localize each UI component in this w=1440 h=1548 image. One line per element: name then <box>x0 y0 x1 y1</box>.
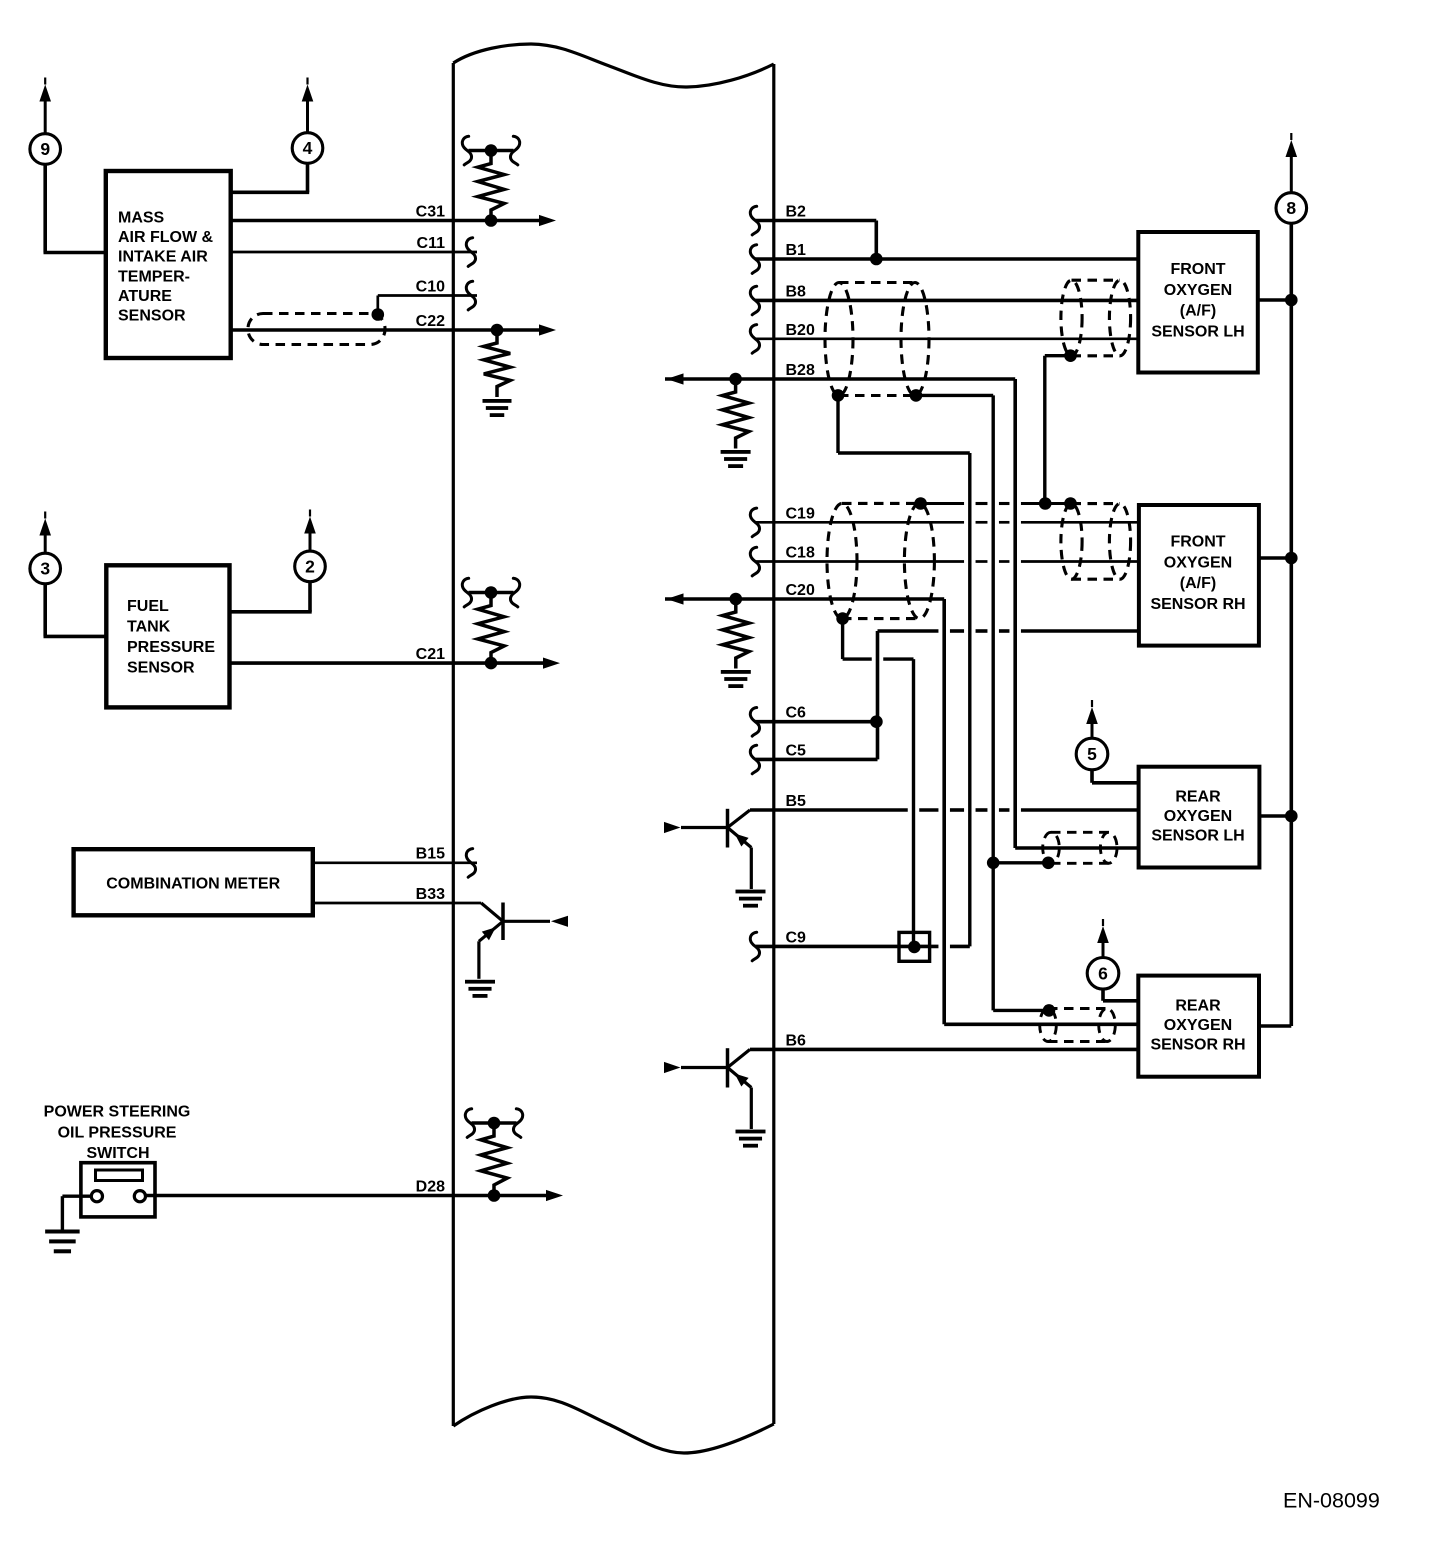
fuel tank pressure sensor label <box>127 598 215 677</box>
shielded twisted pair B8/B20 (dashed tube) <box>825 283 929 396</box>
wire C10 (shield ground) <box>378 296 477 314</box>
wire C11 (sensor ground) <box>231 251 477 254</box>
shield tube at front oxygen sensor LH <box>1061 280 1131 356</box>
connector break squiggle C11 <box>466 238 475 267</box>
wire C20 to rear oxygen sensor RH <box>665 593 1138 1025</box>
circled 3 terminal <box>30 512 61 584</box>
shielded cable around C22 wire (dashed) <box>248 314 385 345</box>
wire C21 (fuel tank pressure signal) <box>230 657 561 670</box>
pull-down resistor at C22 <box>484 330 510 397</box>
fuel tank pressure sensor box <box>106 565 229 707</box>
svg-text:C31: C31 <box>416 204 445 221</box>
wire C19 to front oxygen sensor RH <box>755 521 1139 524</box>
svg-text:C19: C19 <box>786 506 815 523</box>
svg-text:B5: B5 <box>786 793 807 810</box>
C18 pin label <box>786 545 815 562</box>
svg-text:C6: C6 <box>786 705 807 722</box>
wire D28 (power steering switch signal) <box>146 1189 564 1202</box>
svg-text:FRONT: FRONT <box>1170 534 1225 551</box>
shield tube at rear oxygen sensor RH <box>1040 1009 1116 1042</box>
transistor Q3 (B6 heater driver) <box>664 1048 751 1129</box>
joint connector on C9 shield line <box>899 932 930 961</box>
svg-text:OIL PRESSURE: OIL PRESSURE <box>58 1124 177 1141</box>
svg-text:B33: B33 <box>416 886 445 903</box>
C21 pin label <box>416 646 445 663</box>
svg-text:B2: B2 <box>786 204 807 221</box>
wire B33 <box>313 902 481 905</box>
svg-text:(A/F): (A/F) <box>1180 303 1216 320</box>
svg-text:B1: B1 <box>786 242 807 259</box>
svg-text:SENSOR LH: SENSOR LH <box>1151 323 1244 340</box>
circled 5 terminal <box>1076 700 1108 770</box>
connector break squiggle B1 <box>750 245 759 274</box>
svg-text:EN-08099: EN-08099 <box>1283 1489 1380 1513</box>
ECM band torn top edge (wave) <box>453 44 774 87</box>
wire MAF sensor to circled-4 <box>231 163 310 192</box>
diagram id text <box>1283 1489 1380 1513</box>
wire C9 (shield ground pin) <box>755 945 970 949</box>
front oxygen sensor RH label <box>1150 534 1245 613</box>
wire C31 (MAF signal) <box>231 214 556 227</box>
pull-up resistor at C21 <box>478 593 504 664</box>
B20 pin label <box>786 322 815 339</box>
connector break squiggle C6 <box>750 708 759 737</box>
C11 pin label <box>417 235 446 252</box>
front oxygen (A/F) sensor RH box <box>1139 505 1259 646</box>
wire B20 to front oxygen sensor LH <box>755 337 1138 340</box>
B1 pin label <box>786 242 807 259</box>
shield drain link to rear RH cable <box>993 1004 1055 1017</box>
ground below B28 resistor <box>721 450 751 468</box>
svg-text:POWER STEERING: POWER STEERING <box>44 1104 191 1121</box>
transistor Q2 (B5 heater driver) <box>664 809 751 889</box>
svg-text:FUEL: FUEL <box>127 598 169 615</box>
svg-text:SENSOR: SENSOR <box>127 660 195 677</box>
C9 pin label <box>786 930 807 947</box>
circled 9 terminal <box>30 78 61 165</box>
connector break squiggle C5 <box>750 745 759 774</box>
svg-text:B15: B15 <box>416 846 445 863</box>
svg-text:SENSOR: SENSOR <box>118 308 186 325</box>
svg-text:B8: B8 <box>786 284 807 301</box>
svg-text:SENSOR RH: SENSOR RH <box>1150 1037 1245 1054</box>
ground at Q2 emitter <box>736 890 766 908</box>
shield drain of front LH connector tube <box>1045 349 1077 503</box>
power steering oil pressure switch label <box>44 1104 191 1162</box>
wire C18 to front oxygen sensor RH <box>755 560 1139 563</box>
svg-text:SENSOR LH: SENSOR LH <box>1151 828 1244 845</box>
C31 pin label <box>416 204 445 221</box>
B2 pin label <box>786 204 807 221</box>
wire fuel tank sensor to circled-2 <box>230 581 312 612</box>
wire circled-9 to MAF sensor <box>44 164 106 252</box>
common sensor power rail to circled-8 <box>1258 223 1298 1026</box>
svg-text:C11: C11 <box>417 235 446 252</box>
combination meter label <box>106 876 280 893</box>
circled 2 terminal <box>295 510 326 582</box>
D28 pin label <box>416 1179 445 1196</box>
shield tube at front oxygen sensor RH <box>1061 504 1131 580</box>
svg-text:C22: C22 <box>416 313 445 330</box>
svg-text:INTAKE AIR: INTAKE AIR <box>118 249 208 266</box>
pull-down resistor at B28 <box>722 379 748 449</box>
svg-text:TEMPER-: TEMPER- <box>118 268 190 285</box>
transistor Q1 (B33 driver) <box>479 903 568 979</box>
svg-text:SENSOR RH: SENSOR RH <box>1150 596 1245 613</box>
C5 pin label <box>786 743 807 760</box>
svg-text:OXYGEN: OXYGEN <box>1164 282 1232 299</box>
connector break squiggle B8 <box>750 286 759 315</box>
wire B28 to rear oxygen sensor LH <box>665 373 1139 848</box>
connector break squiggle B2 <box>750 206 759 235</box>
svg-text:(A/F): (A/F) <box>1180 575 1216 592</box>
shield drain of front LH cable (left end) <box>832 389 970 946</box>
svg-text:3: 3 <box>40 559 50 579</box>
B15 pin label <box>416 846 445 863</box>
C6 pin label <box>786 705 807 722</box>
svg-text:ATURE: ATURE <box>118 288 172 305</box>
shield drain junction on C22 cable <box>372 308 385 321</box>
ground below C22 resistor <box>483 399 512 417</box>
connector break squiggle C9 <box>750 932 759 961</box>
ECM (engine control module) band left edge <box>452 63 455 1426</box>
shield drain of front RH cable <box>836 612 913 947</box>
svg-text:C5: C5 <box>786 743 807 760</box>
svg-text:OXYGEN: OXYGEN <box>1164 554 1232 571</box>
svg-text:B28: B28 <box>786 362 815 379</box>
svg-text:OXYGEN: OXYGEN <box>1164 808 1232 825</box>
power steering oil pressure switch <box>81 1163 155 1217</box>
wire B5 to rear oxygen sensor LH <box>750 808 1139 812</box>
svg-text:OXYGEN: OXYGEN <box>1164 1017 1232 1034</box>
svg-text:AIR FLOW &: AIR FLOW & <box>118 229 214 246</box>
svg-text:TANK: TANK <box>127 619 171 636</box>
svg-text:FRONT: FRONT <box>1170 261 1225 278</box>
ground at Q3 emitter <box>736 1130 766 1148</box>
svg-text:PRESSURE: PRESSURE <box>127 639 215 656</box>
svg-text:D28: D28 <box>416 1179 445 1196</box>
internal supply at C31 <box>462 136 519 165</box>
wire B1 to front oxygen sensor LH <box>755 257 1138 261</box>
circled 4 terminal <box>292 78 323 164</box>
svg-text:C18: C18 <box>786 545 815 562</box>
svg-text:COMBINATION METER: COMBINATION METER <box>106 876 280 893</box>
shield drain link to rear LH cable <box>987 857 1055 870</box>
circled 6 terminal <box>1087 919 1119 989</box>
B5 pin label <box>786 793 807 810</box>
mass air flow sensor label <box>118 210 214 325</box>
shield tube at rear oxygen sensor LH <box>1043 832 1117 863</box>
svg-text:C9: C9 <box>786 930 807 947</box>
rear oxygen sensor LH label <box>1151 789 1244 845</box>
svg-text:MASS: MASS <box>118 210 165 227</box>
ECM band torn bottom edge (wave) <box>453 1397 774 1453</box>
rear oxygen sensor LH box <box>1139 767 1260 868</box>
pull-up resistor at C31 <box>478 151 504 221</box>
ground at switch <box>45 1230 80 1254</box>
connector break squiggle C18 <box>750 547 759 576</box>
svg-text:5: 5 <box>1087 744 1097 764</box>
wire B2 jog to B1 <box>755 221 883 266</box>
wire circled-5 to rear oxygen sensor LH <box>1092 770 1139 783</box>
wire C6/C5 to front oxygen sensor RH heater <box>755 631 1139 759</box>
B8 pin label <box>786 284 807 301</box>
connector break squiggle B15 <box>466 849 475 878</box>
rear oxygen sensor RH label <box>1150 998 1245 1054</box>
front oxygen (A/F) sensor LH box <box>1138 232 1258 373</box>
svg-text:4: 4 <box>303 138 313 158</box>
connector break squiggle B20 <box>750 325 759 354</box>
shield interconnect wire at front sensors <box>914 497 1076 510</box>
svg-text:2: 2 <box>305 557 315 577</box>
pull-down resistor at C20 <box>723 599 749 669</box>
circled 8 terminal <box>1276 133 1307 223</box>
mass air flow & intake air temperature sensor box <box>106 171 231 358</box>
internal supply at C21 <box>462 578 519 607</box>
wire circled-3 to fuel tank sensor <box>44 584 107 637</box>
C20 pin label <box>786 582 815 599</box>
B28 pin label <box>786 362 815 379</box>
shielded twisted pair C19/C18 (dashed tube) <box>827 503 934 618</box>
svg-text:B20: B20 <box>786 322 815 339</box>
wire B15 <box>313 861 477 864</box>
rear oxygen sensor RH box <box>1138 976 1259 1077</box>
svg-text:6: 6 <box>1098 964 1108 984</box>
combination meter box <box>74 849 313 915</box>
svg-text:9: 9 <box>40 139 50 159</box>
ECM band right edge <box>772 64 775 1424</box>
C22 pin label <box>416 313 445 330</box>
svg-text:C21: C21 <box>416 646 445 663</box>
B33 pin label <box>416 886 445 903</box>
svg-text:C20: C20 <box>786 582 815 599</box>
connector break squiggle C19 <box>750 508 759 537</box>
svg-text:SWITCH: SWITCH <box>86 1145 149 1162</box>
svg-text:REAR: REAR <box>1175 998 1221 1015</box>
C10 pin label <box>416 279 445 296</box>
B6 pin label <box>786 1033 807 1050</box>
internal supply at D28 <box>465 1109 522 1138</box>
front oxygen sensor LH label <box>1151 261 1244 340</box>
svg-text:8: 8 <box>1286 198 1296 218</box>
svg-text:C10: C10 <box>416 279 445 296</box>
wire B8 to front oxygen sensor LH <box>755 299 1138 303</box>
svg-text:REAR: REAR <box>1175 789 1221 806</box>
svg-text:B6: B6 <box>786 1033 807 1050</box>
ground at Q1 emitter <box>465 980 495 998</box>
wire circled-6 to rear oxygen sensor RH <box>1103 989 1138 1001</box>
ground below C20 resistor <box>721 670 751 688</box>
connector break squiggle C10 <box>466 281 475 310</box>
wire switch to ground <box>62 1196 91 1229</box>
C19 pin label <box>786 506 815 523</box>
wire C22 (MAF signal 2) <box>231 324 556 337</box>
pull-up resistor at D28 <box>481 1123 507 1196</box>
wire B6 to rear oxygen sensor RH <box>750 1048 1138 1052</box>
shield drain of front LH cable (right end) <box>910 389 994 1010</box>
